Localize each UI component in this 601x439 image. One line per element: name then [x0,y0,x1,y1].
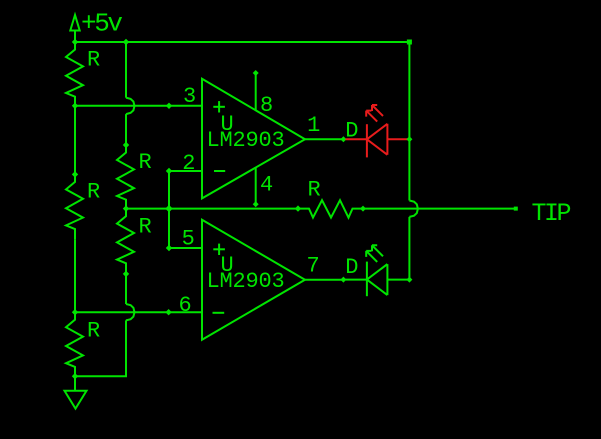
svg-text:8: 8 [260,93,273,118]
wire divider mid to R6 [126,208,298,210]
svg-text:R: R [87,319,100,344]
node junction top-mid [123,39,129,45]
svg-text:4: 4 [260,173,273,198]
node junction pin3 wire [166,103,172,109]
wire mid column top [125,42,127,98]
wire top rail [75,41,409,43]
wire left column lower [74,239,76,312]
node junction LED2 anode [340,277,346,283]
node corner pin2 [166,168,172,174]
node junction ground [72,373,78,379]
svg-text:R: R [139,215,152,240]
wire pin2 net [169,171,203,248]
+5v supply symbol [70,15,79,42]
wire op1 output to LED [305,138,343,140]
wire mid column to R4 [125,114,127,145]
wire to TIP [363,208,516,210]
op-amp U2 LM2903 (bottom) [202,220,305,340]
node TIP endpoint [514,207,518,211]
wire mid column lower [125,274,127,304]
wire hop over pin6 wire [126,304,135,320]
node corner top-right [407,40,412,45]
resistor R3 [66,312,83,376]
LED D2 (green) [345,245,409,296]
wire hop over pin3 wire [126,98,135,114]
wire left column mid [74,106,76,175]
node junction pin6 wire right [165,309,171,315]
node junction R4 top [123,142,129,148]
svg-text:+5v: +5v [81,9,122,39]
wire right rail upper [408,42,410,201]
resistor R6 [298,200,363,217]
ground [65,376,87,408]
svg-text:R: R [87,48,100,73]
node junction R1 bottom [72,103,78,109]
wire pin6 net [75,311,203,313]
svg-text:3: 3 [183,84,196,109]
node junction R2 top [72,171,78,177]
svg-text:7: 7 [307,254,320,279]
svg-text:6: 6 [179,293,192,318]
wire op2 output to LED [305,279,343,281]
svg-text:R: R [87,179,100,204]
node junction LED1 anode [340,136,346,142]
node junction R5 bottom [123,271,129,277]
svg-text:R: R [139,150,152,175]
node junction R6 left [295,205,301,211]
op-amp U1 LM2903 (top) [202,79,305,199]
node junction pin6 wire [72,309,78,315]
svg-text:2: 2 [182,151,195,176]
node junction divider mid [123,205,129,211]
LED D1 (red) [345,105,409,157]
wire right rail lower [408,217,410,280]
resistor R4 [117,145,134,209]
node junction R6 right [360,206,366,212]
wire pin8/pin4 vertical [255,73,257,111]
resistor R1 [66,42,83,106]
svg-text:TIP: TIP [532,199,571,228]
svg-text:D: D [345,255,358,280]
node junction top-left [72,39,78,45]
node junction LED2 rail end [406,277,412,283]
node junction LED1 rail [406,136,412,142]
svg-text:LM2903: LM2903 [207,269,285,294]
svg-text:5: 5 [182,227,195,252]
node junction center (4-way) [165,205,172,212]
node corner pin5 [166,245,172,251]
svg-text:LM2903: LM2903 [207,128,285,153]
wire pin3 net [75,105,203,107]
svg-text:1: 1 [307,113,320,138]
node pin4 bottom [253,201,259,207]
resistor R2 [66,174,83,239]
wire mid column to bottom [75,320,126,376]
svg-text:R: R [308,178,321,203]
wire hop over TIP wire [409,201,418,217]
resistor R5 [117,209,134,274]
node pin8 top [253,70,259,76]
